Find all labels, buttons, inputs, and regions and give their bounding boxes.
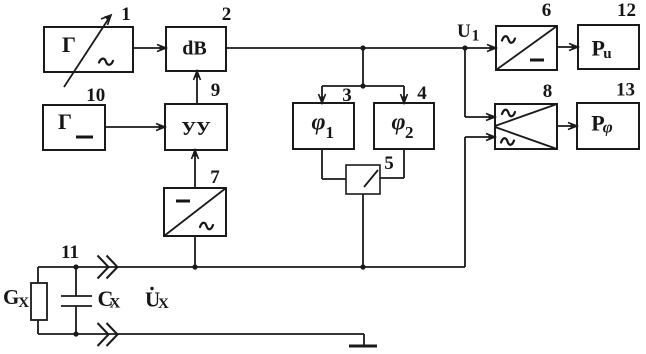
svg-text:9: 9 [211, 80, 221, 101]
svg-text:X: X [110, 296, 121, 312]
svg-text:U: U [457, 21, 471, 42]
svg-text:12: 12 [617, 0, 636, 21]
svg-text:1: 1 [472, 27, 480, 44]
svg-text:dB: dB [182, 38, 206, 60]
svg-text:G: G [3, 285, 19, 309]
svg-text:8: 8 [543, 81, 553, 102]
svg-text:φ: φ [312, 110, 326, 136]
svg-text:11: 11 [61, 242, 79, 263]
svg-text:1: 1 [121, 4, 131, 25]
svg-text:X: X [158, 296, 169, 312]
svg-text:4: 4 [417, 83, 427, 104]
svg-text:Г: Г [62, 32, 76, 57]
svg-text:2: 2 [222, 4, 232, 25]
svg-text:3: 3 [342, 85, 352, 106]
svg-text:2: 2 [405, 123, 414, 142]
svg-text:5: 5 [384, 153, 394, 174]
svg-text:10: 10 [86, 85, 105, 106]
svg-text:13: 13 [616, 80, 635, 101]
svg-text:φ: φ [392, 110, 406, 136]
svg-text:6: 6 [542, 0, 552, 21]
svg-text:7: 7 [210, 167, 220, 188]
svg-text:X: X [18, 295, 29, 311]
svg-text:УУ: УУ [181, 118, 211, 140]
svg-text:u: u [603, 46, 611, 62]
svg-text:Г: Г [58, 109, 72, 134]
svg-text:1: 1 [326, 123, 335, 142]
svg-text:φ: φ [603, 118, 613, 137]
